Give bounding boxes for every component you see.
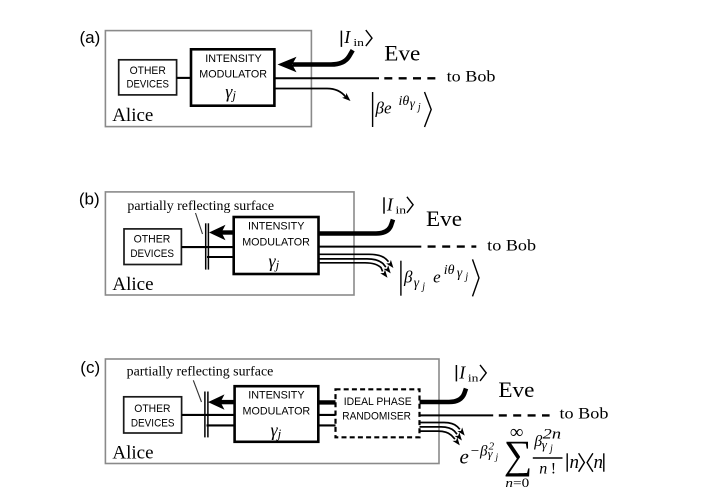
INTENSITY MODULATOR box (c) [235,386,319,442]
svg-text:OTHER: OTHER [134,234,171,246]
svg-text:to Bob: to Bob [560,405,609,422]
thick input arrowhead (a) [278,57,297,73]
OTHER DEVICES box (b) [124,229,181,265]
wire modulator to randomiser lower (c) [318,424,335,426]
svg-text:γ: γ [410,96,416,111]
svg-text:OTHER: OTHER [134,403,170,415]
INTENSITY MODULATOR box (a) [191,49,274,105]
output wire curve 2 (b) [319,259,386,267]
svg-text:I: I [343,27,351,47]
to-Bob wire dashed (c) [499,414,550,416]
svg-text:OTHER: OTHER [130,65,166,77]
svg-text:Alice: Alice [112,443,153,464]
svg-text:β: β [403,267,413,286]
svg-text:in: in [353,38,365,49]
svg-text:DEVICES: DEVICES [130,248,174,260]
svg-text:I: I [458,363,466,383]
thick arrow to surface (c) [221,400,236,404]
svg-text:to Bob: to Bob [487,237,536,254]
caption pointer line (b) [196,213,203,234]
output wire curve 1 (c) [420,423,460,430]
svg-text:in: in [468,374,480,385]
svg-text:DEVICES: DEVICES [131,417,175,429]
output arrowhead 1 (c) [457,428,464,436]
thick input wire from Eve (b) [319,220,394,234]
output arrowhead 3 (c) [453,437,460,445]
output arrowhead 2 (b) [383,265,390,273]
thick wire modulator to randomiser (c) [318,400,335,404]
svg-text:−β: −β [470,444,488,460]
caption pointer line (c) [193,380,201,402]
wire OTHER DEVICES through surface to modulator (b) [181,246,233,248]
svg-text:iθ: iθ [444,263,455,278]
OTHER DEVICES box (c) [124,397,182,433]
ket |I_in> label (c) [456,363,486,385]
output wire curve 3 (c) [420,431,455,439]
wire modulator to randomiser middle (c) [318,414,335,416]
svg-text:n: n [539,461,547,478]
IDEAL PHASE RANDOMISER dashed box (c) [336,389,420,437]
svg-text:MODULATOR: MODULATOR [199,69,267,81]
svg-text:MODULATOR: MODULATOR [243,405,311,417]
output arrowhead 2 (c) [455,432,462,440]
partially reflecting surface element (b) [205,223,207,269]
output wire curve 2 (c) [420,427,458,434]
output arrowhead (a) [342,93,350,101]
Alice enclosure box (c) [105,359,439,464]
svg-text:n=0: n=0 [505,476,529,490]
svg-text:e: e [433,267,441,286]
svg-text:Alice: Alice [112,274,153,295]
svg-text:to Bob: to Bob [447,69,496,86]
wire OTHER DEVICES to INTENSITY MODULATOR (a) [177,77,191,79]
svg-text:Alice: Alice [112,105,153,126]
svg-text:βe: βe [375,99,392,118]
svg-text:iθ: iθ [399,94,410,109]
svg-text:γ: γ [414,275,420,290]
svg-text:n: n [570,452,580,473]
Alice enclosure box (a) [105,31,311,127]
ket-bra |n><n| [566,453,568,471]
svg-text:(c): (c) [80,358,100,377]
output arrowhead 1 (b) [386,260,393,268]
svg-text:INTENSITY: INTENSITY [248,389,305,401]
fraction bar [533,457,563,459]
to-Bob wire dashed (a) [384,77,435,79]
partially reflecting surface element (c) [204,392,206,438]
lower wire surface to modulator (b) [207,256,234,258]
ket |I_in> label (b) [384,195,413,217]
output wire curve (a) [274,89,345,97]
thick input wire from Eve (a) [293,50,353,64]
svg-text:γ: γ [542,437,548,452]
svg-text:!: ! [551,461,556,478]
OTHER DEVICES box (a) [119,60,177,95]
svg-text:γ: γ [488,447,493,461]
thick arrow to surface (b) [222,230,235,234]
output wire curve 3 (b) [319,263,383,272]
svg-text:INTENSITY: INTENSITY [205,53,262,65]
svg-text:INTENSITY: INTENSITY [248,221,305,233]
svg-text:I: I [386,195,394,215]
to-Bob wire solid (a) [274,77,379,79]
ket |beta e^(i theta gamma_j)> label (a) [373,92,432,127]
ket |I_in> label (a) [341,27,372,49]
svg-text:Eve: Eve [426,206,462,231]
svg-text:γ: γ [457,265,463,280]
svg-text:n: n [594,452,604,473]
svg-text:e: e [460,445,469,469]
svg-text:(a): (a) [80,28,101,47]
density matrix formula (c) [460,422,604,490]
svg-text:partially reflecting surface: partially reflecting surface [127,198,274,213]
svg-text:(b): (b) [79,190,100,209]
svg-text:RANDOMISER: RANDOMISER [342,410,411,422]
to-Bob wire dashed (b) [428,245,477,247]
to-Bob wire solid (b) [319,246,422,248]
svg-text:IDEAL PHASE: IDEAL PHASE [344,396,412,408]
to-Bob wire solid (c) [420,414,494,416]
thick input wire from Eve (c) [420,389,467,403]
svg-text:DEVICES: DEVICES [127,79,170,91]
wire OTHER DEVICES through surface to modulator (c) [182,414,235,416]
svg-text:∑: ∑ [504,432,533,477]
INTENSITY MODULATOR box (b) [234,217,319,274]
ket |beta_gammaj e^(i theta gammaj)> label (b) [401,259,479,296]
lower wire surface to modulator (c) [207,424,235,426]
svg-text:Eve: Eve [384,40,420,65]
output wire curve 1 (b) [319,254,389,261]
Alice enclosure box (b) [105,192,354,295]
svg-text:MODULATOR: MODULATOR [242,237,310,249]
output arrowhead 3 (b) [380,270,387,278]
svg-text:partially reflecting surface: partially reflecting surface [127,364,274,379]
svg-text:in: in [396,206,408,217]
svg-text:Eve: Eve [498,377,534,402]
